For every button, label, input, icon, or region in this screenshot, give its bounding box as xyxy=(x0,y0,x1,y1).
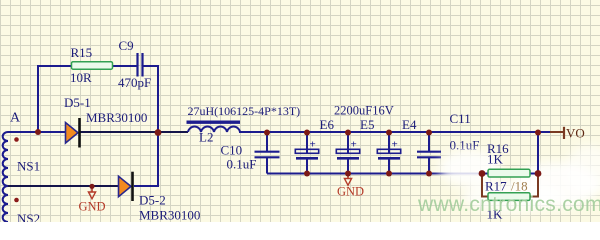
svg-text:VO: VO xyxy=(566,126,585,141)
polarity dot NS1 xyxy=(14,137,19,142)
junction (E6 top) xyxy=(304,130,310,136)
transformer winding NS2 xyxy=(3,186,8,222)
svg-text:NS1: NS1 xyxy=(17,159,40,174)
svg-text:+: + xyxy=(392,139,398,151)
capacitor E6 (electrolytic) xyxy=(295,117,334,158)
svg-text:NS2: NS2 xyxy=(17,211,40,222)
wire: R15 to C9 xyxy=(113,65,138,67)
white highlight blobs xyxy=(439,145,600,212)
wire: transformer center tap to D5-2 anode xyxy=(8,185,119,187)
wire: R17 right connection (brown) xyxy=(530,174,538,197)
capacitor C11 xyxy=(417,111,479,157)
svg-text:C9: C9 xyxy=(119,38,134,53)
svg-text:E6: E6 xyxy=(320,117,335,132)
svg-text:D5-2: D5-2 xyxy=(139,193,166,208)
junction (R15 branch / rail) xyxy=(35,129,41,135)
polarity dot NS2 xyxy=(14,198,19,203)
wire: E4 leads xyxy=(388,132,390,174)
power port VO xyxy=(550,126,585,141)
wire: bottom ground rail xyxy=(267,173,482,175)
junction (E4 bottom) xyxy=(386,171,392,177)
svg-text:0.1uF: 0.1uF xyxy=(227,157,257,172)
svg-text:+: + xyxy=(351,139,357,151)
junction (E5 bottom / GND) xyxy=(345,171,351,177)
wire: R17 left connection (brown) xyxy=(482,174,488,197)
junction (E6 bottom) xyxy=(304,171,310,177)
wire: R16 leads xyxy=(482,173,538,175)
wire: top branch horizontal left of R15 xyxy=(38,65,72,67)
svg-text:MBR30100: MBR30100 xyxy=(86,110,147,125)
wire: main rail transformer to D5-1 anode xyxy=(8,131,66,133)
svg-text:R15: R15 xyxy=(71,45,93,60)
wire: D5-2 cathode to corner xyxy=(134,185,159,187)
svg-text:L2: L2 xyxy=(199,130,213,145)
svg-text:C11: C11 xyxy=(450,111,471,126)
junction (R16 left) xyxy=(479,170,486,177)
svg-text:27uH(106125-4P*13T): 27uH(106125-4P*13T) xyxy=(188,104,301,118)
svg-text:GND: GND xyxy=(79,200,106,214)
junction (E5 top) xyxy=(345,130,351,136)
diode D5-1 xyxy=(64,95,147,148)
junction (VO branch top) xyxy=(535,130,541,136)
junction (C11 bottom) xyxy=(426,171,432,177)
resistor R15 xyxy=(70,45,113,85)
svg-text:10R: 10R xyxy=(70,70,92,85)
wire: C9 right to corner xyxy=(143,65,159,67)
svg-text:A: A xyxy=(10,111,21,126)
svg-text:/18: /18 xyxy=(511,179,528,194)
wire: right vertical branch x=158 (C9 to junction) xyxy=(157,65,159,132)
wire: vertical x=538 VO to R16 xyxy=(537,132,539,174)
svg-text:C10: C10 xyxy=(221,143,243,158)
wire: L2 right to VO area xyxy=(239,131,550,133)
wire: E6 leads xyxy=(306,132,308,174)
inductor L2 xyxy=(187,104,301,145)
svg-text:470pF: 470pF xyxy=(118,75,151,90)
junction (C9 / D5-2 / rail node) xyxy=(155,129,162,136)
junction (C10 top) xyxy=(264,130,270,136)
junction (C11 top) xyxy=(426,130,432,136)
wire: C11 leads xyxy=(428,132,430,174)
svg-text:R17: R17 xyxy=(485,179,507,194)
resistor R17 xyxy=(485,179,530,222)
wire: vertical x=158 junction down to D5-2 row xyxy=(157,132,159,186)
junction (E4 top) xyxy=(386,130,392,136)
wire: left vertical branch x=38 xyxy=(37,65,39,132)
capacitor E5 (electrolytic) xyxy=(336,117,374,158)
capacitor C10 xyxy=(221,143,280,172)
wire: D5-1 cathode to L2 xyxy=(80,131,188,133)
svg-text:www.cntronics.com: www.cntronics.com xyxy=(417,193,600,216)
ground GND (output filter) xyxy=(337,174,364,198)
svg-text:2200uF16V: 2200uF16V xyxy=(334,104,394,118)
junction (R16 right) xyxy=(535,170,542,177)
svg-text:E5: E5 xyxy=(360,117,374,132)
wire: C10 top lead xyxy=(266,132,268,151)
resistor R16 xyxy=(487,141,530,177)
svg-text:MBR30100: MBR30100 xyxy=(139,208,200,223)
capacitor E4 (electrolytic) xyxy=(377,117,417,158)
junction (GND tap on D5-2 wire) xyxy=(89,184,94,189)
ground GND (transformer center tap) xyxy=(79,187,106,214)
svg-text:+: + xyxy=(310,139,316,151)
transformer winding NS1 xyxy=(3,132,8,186)
wire: C10 bottom lead xyxy=(266,157,268,174)
svg-text:1K: 1K xyxy=(487,152,504,167)
diode D5-2 xyxy=(119,172,201,223)
svg-text:GND: GND xyxy=(337,184,364,198)
svg-text:E4: E4 xyxy=(402,117,417,132)
capacitor C9 xyxy=(118,38,151,90)
svg-text:D5-1: D5-1 xyxy=(64,95,91,110)
wire: E5 leads xyxy=(347,132,349,174)
